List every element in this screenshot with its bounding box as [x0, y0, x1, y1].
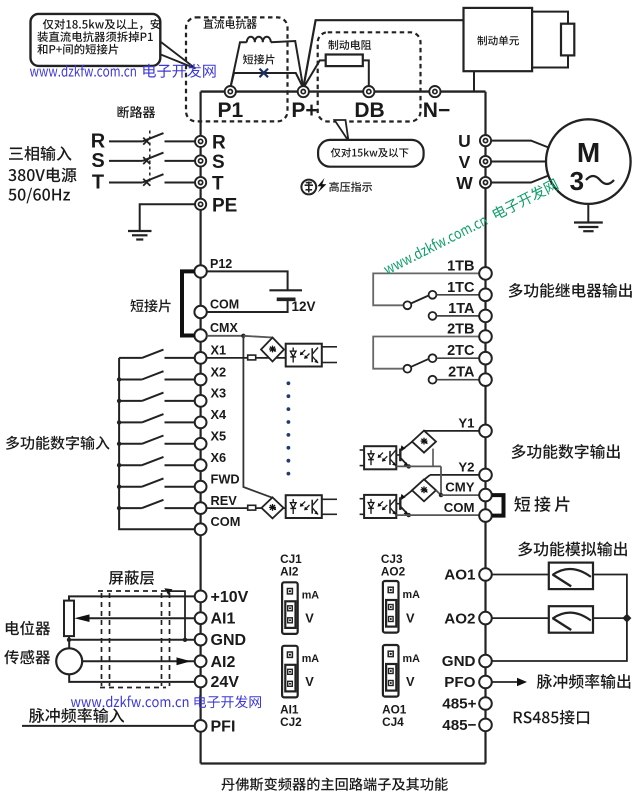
svg-text:mA: mA — [302, 589, 320, 601]
callout text line2 — [37, 31, 152, 42]
wire: meter2 to return — [593, 617, 627, 619]
terminal PFI — [195, 720, 207, 732]
label 50/60Hz — [8, 188, 70, 204]
svg-text:N−: N− — [423, 99, 450, 122]
svg-text:GND: GND — [442, 653, 476, 670]
shield dashed lines — [98, 591, 170, 688]
resistor on REV line — [248, 505, 256, 510]
terminal CMX — [194, 329, 206, 341]
svg-text:T: T — [212, 174, 224, 195]
svg-text:COM: COM — [211, 514, 241, 529]
terminal 2TB — [479, 330, 492, 343]
terminal COM — [479, 509, 492, 522]
switch for X6 — [119, 457, 195, 465]
switch for X5 — [119, 436, 195, 444]
junction dot X5 — [117, 442, 121, 446]
jumper block CJ1/AI2 — [282, 582, 298, 634]
wire: REV to optocoupler — [207, 507, 286, 509]
label 高压指示 — [329, 182, 372, 192]
DC reactor dashed enclosure — [186, 17, 288, 121]
resistor RB1 (brake resistor) — [326, 55, 363, 67]
wire: GND rail — [69, 639, 195, 641]
svg-text:CMX: CMX — [210, 321, 238, 335]
label 多功能模拟输出 — [518, 542, 627, 557]
svg-text:AI1: AI1 — [211, 611, 236, 628]
callout text line1 — [43, 19, 161, 30]
wire: X1 to optocoupler — [207, 357, 286, 359]
relay contact group 2T — [373, 337, 479, 384]
svg-text:AO2: AO2 — [381, 565, 406, 579]
jumper block AI1/CJ2 — [282, 646, 298, 698]
svg-text:2TC: 2TC — [447, 343, 475, 359]
terminal AI2 — [195, 655, 207, 667]
svg-text:485+: 485+ — [442, 696, 476, 713]
inductor L1 (DC reactor coil) — [230, 37, 303, 88]
terminal P+ — [298, 86, 309, 97]
svg-text:S: S — [212, 152, 225, 173]
junction dot shield/GND — [183, 638, 187, 642]
terminal U — [480, 135, 491, 146]
watermark top (blue) — [30, 65, 136, 77]
X mark on jumper — [260, 69, 269, 78]
terminal Y1 — [479, 425, 492, 438]
wire: +10V to potentiometer — [69, 596, 195, 600]
ground symbol (motor) — [574, 223, 603, 232]
relay contact group 1T — [373, 273, 479, 319]
caption 丹佛斯变频器的主回路端子及其功能 — [221, 777, 447, 791]
label 三相输入 — [9, 146, 72, 161]
terminal V — [480, 156, 491, 167]
callout text line3 — [37, 44, 118, 55]
terminal X5 — [195, 438, 207, 450]
wire: braking unit down to DC bus — [473, 71, 475, 91]
svg-text:V: V — [305, 674, 314, 689]
wire: ext resistor to braking unit (bottom) — [532, 55, 568, 67]
switch for X2 — [119, 371, 195, 379]
svg-text:Y2: Y2 — [458, 459, 474, 474]
label 传感器 — [4, 650, 50, 664]
svg-text:CJ2: CJ2 — [280, 715, 302, 729]
wire: braking unit to ext resistor (top) — [532, 12, 568, 24]
svg-text:X3: X3 — [211, 386, 227, 401]
svg-text:X1: X1 — [211, 343, 227, 358]
meter M1 (AO1) — [549, 563, 593, 590]
motor M 3~ — [546, 119, 631, 204]
breaker pole T — [143, 174, 195, 186]
optocoupler U-X1 output stubs — [322, 347, 337, 363]
terminal X4 — [195, 417, 207, 429]
junction dot AO return — [622, 614, 631, 623]
jumper bracket P12-CMX (短接片) — [182, 271, 195, 335]
callout box 仅对15kw及以下 — [318, 140, 424, 167]
wire: PE to ground — [140, 204, 195, 231]
surge suppressor diamond (REV) — [262, 497, 284, 518]
svg-text:1TC: 1TC — [447, 280, 475, 296]
battery 12V — [269, 290, 302, 299]
callout tail (18.5kw note) — [157, 39, 196, 69]
label 仅对15kw及以下 — [331, 148, 409, 158]
breaker linkage (dashed) — [149, 131, 151, 187]
junction dot CMX rail — [241, 334, 245, 338]
svg-text:24V: 24V — [211, 674, 240, 691]
wire: sensor to AI2 with arrow — [82, 657, 195, 665]
wire: right main bus (vertical) — [484, 92, 486, 764]
label 制动电阻 — [328, 40, 371, 50]
terminal AO1 — [479, 568, 492, 581]
svg-text:2TB: 2TB — [447, 322, 474, 338]
label 短接片 (left jumper) — [131, 299, 171, 312]
label 脉冲频率输出 — [537, 674, 631, 689]
terminal 1TC — [479, 289, 492, 302]
resistor on X1 line — [248, 355, 256, 360]
optocoupler U-REV output stubs — [322, 499, 337, 514]
switch for X3 — [119, 393, 195, 401]
wire: brake resistor to DB — [363, 60, 369, 88]
switch for FWD — [119, 478, 195, 486]
svg-text:CJ4: CJ4 — [382, 715, 404, 729]
svg-text:Y1: Y1 — [458, 415, 474, 430]
svg-text:+10V: +10V — [211, 589, 249, 606]
wire: AI1 to pot wiper — [74, 614, 194, 622]
wire: AO2 to meter — [492, 617, 549, 619]
svg-text:PE: PE — [212, 195, 237, 216]
svg-text:U: U — [458, 131, 471, 151]
svg-text:X5: X5 — [211, 429, 227, 444]
wire: S input — [109, 160, 143, 162]
braking unit box 制动单元 — [464, 8, 533, 71]
watermark diagonal (green) — [382, 177, 559, 276]
switch for X1 — [119, 350, 195, 358]
junction dot FWD — [117, 485, 121, 489]
terminal CMY — [479, 489, 492, 502]
wire: CMX rail to X1 surge diamond — [243, 336, 272, 338]
surge suppressor diamond (X1) — [261, 338, 284, 362]
breaker pole R — [143, 133, 195, 145]
Y1 output circuit (opto + transistor Q1 + surge diamond) — [360, 431, 480, 470]
terminal AI1 — [195, 612, 207, 624]
label 短接片 (CMY jumper) — [514, 496, 569, 512]
wire: sensor top to GND — [68, 640, 70, 649]
svg-text:mA: mA — [403, 653, 421, 665]
terminal R — [195, 136, 206, 147]
svg-text:PFI: PFI — [211, 718, 236, 735]
junction dot pot/GND — [67, 638, 71, 642]
wire: R input — [109, 140, 143, 142]
terminal +10V — [195, 591, 207, 603]
terminal 1TB — [479, 267, 492, 280]
wire: Y1 rail down to CMY — [440, 466, 442, 495]
junction dot X3 — [117, 399, 121, 403]
svg-text:DB: DB — [354, 99, 384, 122]
svg-text:P+: P+ — [291, 99, 317, 122]
svg-text:12V: 12V — [292, 299, 316, 314]
terminal DB — [363, 86, 374, 97]
svg-text:REV: REV — [211, 493, 238, 508]
breaker pole S — [143, 153, 195, 165]
terminal 485+ — [479, 697, 492, 710]
digital input common rail — [119, 358, 195, 529]
junction dot X2 — [117, 377, 121, 381]
label 制动单元 — [477, 36, 519, 46]
terminal X3 — [195, 395, 207, 407]
svg-text:V: V — [305, 611, 314, 626]
terminal W — [480, 177, 491, 188]
terminal S — [195, 155, 206, 166]
wire: top DC bus P1-P+-DB-N- — [201, 90, 486, 92]
svg-text:AO2: AO2 — [444, 610, 475, 627]
terminal 2TA — [479, 373, 492, 386]
svg-text:X4: X4 — [211, 407, 228, 422]
wire: W to motor — [491, 176, 549, 183]
resistor RB2 (ext braking resistor) — [561, 24, 574, 56]
svg-text:3: 3 — [570, 166, 584, 196]
svg-text:X6: X6 — [211, 450, 227, 465]
optocoupler U-REV internals — [290, 499, 318, 515]
callout tail — [335, 120, 349, 141]
terminal PFO — [479, 676, 492, 689]
svg-text:CMY: CMY — [445, 480, 475, 495]
label 电位器 — [6, 621, 50, 636]
wire: battery to COM — [207, 299, 288, 312]
ellipsis dots (X2..X6 circuits) — [287, 381, 291, 475]
terminal N- — [429, 86, 440, 97]
terminal P12 — [194, 265, 206, 277]
wire: pulse input line — [22, 725, 195, 727]
wire: left main bus (vertical) — [200, 92, 202, 764]
wire: sensor bottom to 24V — [69, 674, 195, 682]
shield ground link with arrow — [164, 588, 185, 640]
terminal 24V — [195, 676, 207, 688]
lightning bolt icon — [318, 178, 327, 193]
svg-text:S: S — [91, 150, 104, 172]
optocoupler U-REV box — [286, 495, 322, 518]
callout box 18.5kw note — [31, 14, 161, 66]
wire: PFO pulse output arrow — [492, 678, 527, 686]
brake resistor dashed enclosure — [318, 32, 421, 121]
jumper link (短接片) between P1 and P+ — [230, 73, 303, 88]
label 屏蔽层 — [109, 570, 154, 585]
sensor (传感器) circle — [56, 648, 82, 674]
high-voltage indicator symbol — [301, 180, 316, 195]
wire: meters common return to GND — [492, 575, 627, 662]
svg-text:V: V — [406, 674, 415, 689]
terminal P1 — [225, 86, 236, 97]
terminal X1 — [195, 352, 207, 364]
svg-text:T: T — [92, 172, 104, 194]
Y2 output circuit (opto + transistor Q2 + surge diamond) — [360, 475, 480, 518]
jumper bracket CMY-COM (短接片) — [492, 495, 504, 515]
jumper block CJ3/AO2 — [383, 581, 399, 633]
wire: bottom bus — [201, 762, 486, 764]
ground symbol (PE) — [128, 231, 152, 240]
svg-text:AI2: AI2 — [211, 654, 236, 671]
wire: pot bottom to GND rail — [68, 636, 70, 640]
terminal FWD — [195, 481, 207, 493]
svg-text:R: R — [212, 132, 226, 153]
wire: P+ to brake resistor — [303, 60, 325, 88]
wire: CMX to input optos (common) — [207, 335, 244, 337]
label 多功能数字输出 — [512, 444, 620, 459]
switch for X4 — [119, 414, 195, 422]
svg-text:P12: P12 — [210, 257, 232, 271]
switch for REV — [119, 500, 195, 508]
label 脉冲频率输入 — [29, 708, 124, 723]
svg-text:X2: X2 — [211, 364, 227, 379]
svg-text:AI2: AI2 — [280, 565, 299, 579]
wire: AO1 to meter — [492, 574, 549, 576]
svg-text:AO1: AO1 — [444, 567, 476, 584]
label 直流电抗器 — [204, 19, 257, 29]
terminal T — [195, 177, 206, 188]
terminal GND — [479, 655, 492, 668]
terminal 485- — [479, 719, 492, 732]
svg-text:W: W — [456, 173, 473, 193]
svg-text:PFO: PFO — [444, 674, 475, 691]
svg-text:GND: GND — [211, 632, 247, 649]
svg-text:mA: mA — [403, 589, 421, 601]
label RS485接口 — [514, 710, 589, 725]
watermark bottom (blue) — [71, 696, 188, 708]
terminal 2TC — [479, 352, 492, 365]
label 多功能继电器输出 — [509, 283, 632, 298]
terminal X2 — [195, 374, 207, 386]
junction dot CMY — [439, 493, 443, 497]
svg-text:P1: P1 — [217, 99, 243, 122]
terminal REV — [195, 502, 207, 514]
terminal COM — [195, 523, 207, 535]
svg-text:COM: COM — [210, 298, 239, 312]
terminal GND (left) — [195, 634, 207, 646]
svg-text:COM: COM — [444, 500, 475, 515]
junction dot REV — [117, 506, 121, 510]
svg-text:V: V — [459, 152, 471, 172]
wire: U to motor — [491, 141, 549, 148]
wire: P12 to battery — [207, 271, 288, 290]
svg-text:M: M — [577, 137, 600, 168]
svg-text:1TA: 1TA — [448, 301, 475, 317]
terminal PE — [195, 199, 206, 210]
label 断路器 — [118, 106, 156, 118]
wire: CMY lead — [441, 494, 479, 496]
svg-text:mA: mA — [302, 653, 320, 665]
wire: motor to ground — [587, 204, 589, 223]
terminal COM (control) — [194, 306, 206, 318]
junction dot X4 — [117, 420, 121, 424]
terminal AO2 — [479, 612, 492, 625]
svg-text:485−: 485− — [442, 717, 476, 734]
junction dot X6 — [117, 463, 121, 467]
label 短接片 (top jumper) — [243, 54, 275, 64]
label 380V电源 — [8, 168, 76, 183]
svg-text:FWD: FWD — [211, 472, 240, 487]
meter M2 (AO2) — [549, 606, 593, 633]
terminal 1TA — [479, 310, 492, 323]
svg-text:V: V — [406, 611, 415, 626]
potentiometer RP1 — [64, 601, 74, 637]
wire: T input — [109, 182, 143, 184]
terminal X6 — [195, 459, 207, 471]
wire: V to motor — [491, 161, 546, 163]
terminal Y2 — [479, 469, 492, 482]
wire: P+ up to braking unit — [303, 20, 463, 88]
wire: opto common rail vertical — [243, 336, 272, 498]
label 多功能数字输入 — [6, 436, 110, 450]
optocoupler U-X1 box — [286, 344, 322, 367]
svg-text:1TB: 1TB — [447, 258, 474, 274]
optocoupler U-X1 internals — [290, 348, 318, 364]
svg-text:2TA: 2TA — [448, 365, 475, 381]
jumper block AO1/CJ4 — [383, 645, 399, 697]
